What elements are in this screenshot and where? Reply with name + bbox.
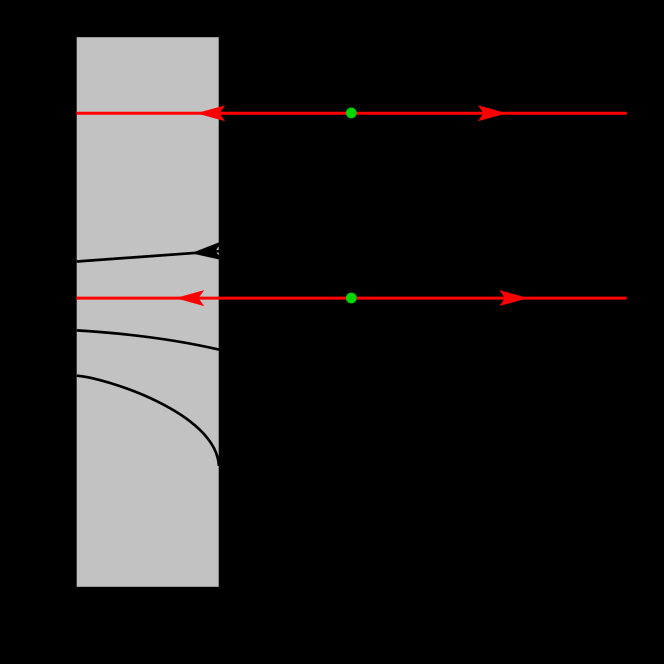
photon dot on ray 2 bbox=[346, 293, 357, 304]
photon dot on ray 1 bbox=[346, 108, 357, 119]
red ray 2 (lower light ray) bbox=[76, 297, 627, 300]
ray 2 right arrowhead bbox=[499, 290, 528, 306]
trajectory curve A (upper, nearly straight, rising slightly) bbox=[77, 251, 219, 261]
trajectory curve C (lower, bending down to vertical at slab edge) bbox=[77, 376, 219, 466]
black arrowhead on curve A (pointing left along curve) bbox=[190, 241, 223, 263]
ray 1 right arrowhead bbox=[478, 105, 507, 121]
red ray 1 (top light ray) bbox=[76, 112, 627, 115]
ray 1 left arrowhead bbox=[196, 105, 225, 121]
ray 2 left arrowhead bbox=[175, 290, 204, 306]
trajectory curve B (middle, gently bending down) bbox=[77, 330, 219, 349]
gray slab (medium) bbox=[77, 37, 219, 587]
